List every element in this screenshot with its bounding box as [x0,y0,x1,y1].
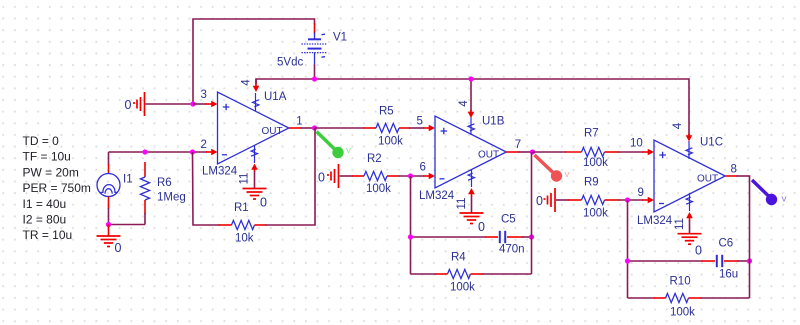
junction node pin9 [625,197,630,202]
pin label 4 rotated [241,79,253,86]
wire: pin2 row from I1 to op-amp [109,151,208,153]
svg-text:R5: R5 [379,106,394,118]
resistor R2 [352,171,435,180]
svg-text:R2: R2 [367,153,382,165]
svg-text:11: 11 [239,173,251,185]
label LM324 [637,215,673,227]
svg-text:TF = 10u: TF = 10u [23,150,71,164]
svg-text:0: 0 [318,170,325,184]
wire: feedback left leg U1A [193,152,220,225]
junction U1B out node [530,149,535,154]
label OUT [478,150,499,161]
resistor R7 [533,147,655,156]
svg-text:I1: I1 [123,174,133,186]
wire: bottom between I1 and R6 [109,224,146,226]
svg-text:0: 0 [115,241,122,255]
op-amp U1B [435,116,506,188]
svg-text:2: 2 [201,139,207,151]
svg-text:6: 6 [420,162,426,174]
wire: U1B output [506,151,532,153]
wire: U1C fb right leg [749,176,751,298]
junction C5 left [408,234,413,239]
svg-text:1: 1 [296,115,302,127]
svg-text:100k: 100k [583,157,608,169]
value 5Vdc [277,56,303,68]
svg-text:OUT: OUT [697,174,718,185]
value 100k [450,281,475,293]
svg-text:0: 0 [125,98,132,112]
pin number 7 [515,139,521,151]
net label 0 [318,170,325,184]
wire: U1B fb right leg [531,152,533,274]
value 100k [378,136,403,148]
wire: U1C fb left leg [627,200,629,298]
ground 0 at R9 [544,188,570,212]
junction rail/V1 [312,76,317,81]
svg-text:C6: C6 [719,237,734,249]
junction C6 right [747,258,752,263]
label R5 [379,106,394,118]
pin 11 arrow U1B [468,188,475,213]
pin 4 arrow U1B [468,110,475,118]
svg-text:V: V [782,194,787,203]
net label 0 [125,98,132,112]
pin label 11 rotated [456,198,468,210]
junction C5 right [529,234,534,239]
resistor R6 [140,162,149,225]
svg-text:OUT: OUT [262,126,283,137]
pin number 5 [417,116,423,128]
net label 0 [536,194,543,208]
pin number 2 [201,139,207,151]
value 100k [366,183,391,195]
svg-text:3: 3 [201,89,207,101]
value 470n [499,244,525,256]
svg-text:C5: C5 [501,214,516,226]
pin label 11 rotated [674,218,686,230]
junction I1 bottom [106,222,111,227]
svg-text:I1 = 40u: I1 = 40u [23,197,67,211]
parameter text block [23,134,91,242]
wire: V1 minus to rail [314,65,316,80]
svg-text:R1: R1 [234,202,249,214]
pin number 10 [630,137,643,149]
svg-text:11: 11 [674,218,686,230]
svg-text:TR = 10u: TR = 10u [23,228,73,242]
svg-text:11: 11 [456,198,468,210]
pin 4 arrow [253,79,260,92]
junction R6 top [142,149,147,154]
svg-text:OUT: OUT [478,150,499,161]
wire: U1A output [289,127,315,129]
arrow into pin 2 [206,149,218,155]
svg-text:0: 0 [260,196,267,210]
capacitor C5 [485,231,532,243]
junction C6 left [625,258,630,263]
label LM324 [202,166,238,178]
svg-text:9: 9 [638,187,644,199]
label R4 [451,251,466,263]
svg-text:PER = 750m: PER = 750m [23,181,91,195]
resistor R5 [315,123,436,132]
resistor R9 [568,195,654,204]
value 10k [235,233,254,245]
wire + arrow into pin 3 [193,101,218,107]
pin 11 arrow U1C [686,212,693,234]
label LM324 [419,190,455,202]
wire: top loop from node A to V1 plus [193,19,315,104]
svg-text:V: V [565,170,570,179]
pin 4 arrow U1C [686,134,693,142]
svg-text:4: 4 [672,122,684,129]
label U1A [264,91,287,103]
label C6 [719,237,734,249]
ground 0 below U1B [460,213,484,224]
svg-text:0: 0 [695,243,702,257]
svg-text:V1: V1 [333,31,347,43]
junction node pin3 [190,101,195,106]
svg-text:R9: R9 [584,177,599,189]
net label 0 [478,220,485,234]
svg-text:100k: 100k [670,306,695,318]
ground 0 below U1C [678,234,702,245]
label U1C [700,136,723,148]
wire: U1C output [725,175,750,177]
svg-text:U1C: U1C [700,136,723,148]
junction node pin6 [408,173,413,178]
svg-text:8: 8 [731,163,737,175]
svg-text:R6: R6 [157,177,172,189]
svg-text:10: 10 [630,137,643,149]
probe V red [535,155,570,182]
svg-text:LM324: LM324 [419,190,455,202]
value 100k [583,157,608,169]
label R1 [234,202,249,214]
resistor R1 [219,220,267,229]
svg-text:R10: R10 [670,276,691,288]
svg-text:7: 7 [515,139,521,151]
svg-text:16u: 16u [719,268,738,280]
wire: rail drop to U1B pin4 [470,79,472,112]
label R9 [584,177,599,189]
value 16u [719,268,738,280]
ground 0 at U1A plus input [133,92,193,116]
label R7 [584,128,599,140]
svg-text:5: 5 [417,116,423,128]
svg-text:10k: 10k [235,233,254,245]
op-amp U1C [654,140,725,212]
pin number 3 [201,89,207,101]
net label 0 [260,196,267,210]
svg-text:100k: 100k [450,281,475,293]
svg-text:TD = 0: TD = 0 [23,134,60,148]
svg-text:I2 = 80u: I2 = 80u [23,213,67,227]
current source I1 [97,152,120,225]
svg-text:U1B: U1B [482,116,505,128]
capacitor C6 [702,255,750,267]
wire: C5 row left [411,236,487,238]
wire: V+ power rail [256,79,689,136]
resistor R4 [411,269,532,278]
net label 0 [695,243,702,257]
junction node pin2 [190,149,195,154]
pin label 11 rotated [239,173,251,185]
pin 11 arrow [251,164,258,189]
pin label 4 rotated [672,122,684,129]
pin number 8 [731,163,737,175]
svg-text:V: V [346,146,351,155]
svg-text:0: 0 [536,194,543,208]
svg-text:U1A: U1A [264,91,287,103]
pin number 6 [420,162,426,174]
label I1 [123,174,133,186]
ground 0 below U1A [243,189,267,200]
svg-text:5Vdc: 5Vdc [277,56,303,68]
wire: feedback right leg U1A [266,128,316,225]
svg-text:R4: R4 [451,251,466,263]
svg-text:4: 4 [458,100,470,107]
svg-text:R7: R7 [584,128,599,140]
ground 0 below I1 [97,225,121,247]
probe V blue [752,180,787,205]
label OUT [697,174,718,185]
probe V green [317,132,352,159]
svg-text:470n: 470n [499,244,525,256]
value 100k [583,208,608,220]
svg-text:1Meg: 1Meg [157,191,186,203]
svg-text:100k: 100k [366,183,391,195]
op-amp U1A [218,92,289,164]
svg-text:LM324: LM324 [202,166,238,178]
junction U1A out node [312,125,317,130]
svg-text:4: 4 [241,79,253,86]
wire: C6 row left [628,260,704,262]
svg-text:100k: 100k [583,208,608,220]
label V1 [333,31,347,43]
value 1Meg [157,191,186,203]
value 100k [670,306,695,318]
label U1B [482,116,505,128]
label R10 [670,276,691,288]
label OUT [262,126,283,137]
pin number 9 [638,187,644,199]
net label 0 [115,241,122,255]
svg-text:0: 0 [478,220,485,234]
label R6 [157,177,172,189]
junction rail/U1B pin4 [468,76,473,81]
pin number 1 [296,115,302,127]
svg-text:LM324: LM324 [637,215,673,227]
pin label 4 rotated [458,100,470,107]
label R2 [367,153,382,165]
svg-text:100k: 100k [378,136,403,148]
resistor R10 [628,293,750,302]
wire: U1B fb left leg [410,176,412,274]
label C5 [501,214,516,226]
ground 0 at R2 [327,164,353,188]
svg-text:PW = 20m: PW = 20m [23,165,79,179]
voltage source V1 [302,23,328,66]
